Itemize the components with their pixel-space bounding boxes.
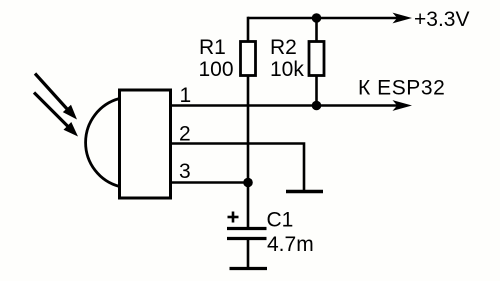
- svg-text:R1: R1: [199, 36, 226, 59]
- wire: +3.3V top rail: [248, 13, 412, 24]
- svg-text:+3.3V: +3.3V: [414, 8, 469, 31]
- resistor R1: [241, 42, 256, 76]
- svg-text:100: 100: [199, 58, 234, 81]
- node: junction dot top rail / R2: [312, 13, 322, 23]
- wire: R1 top lead: [247, 17, 250, 42]
- svg-text:К ESP32: К ESP32: [358, 77, 445, 100]
- IR receiver body U1: [120, 90, 171, 198]
- capacitor C1 bottom plate: [227, 237, 267, 240]
- svg-text:3: 3: [179, 160, 191, 183]
- wire: C1 bottom lead: [247, 239, 250, 268]
- label C1 value 4.7m: [267, 209, 314, 257]
- svg-text:R2: R2: [270, 36, 297, 59]
- label R1 value 100: [199, 36, 234, 81]
- ground bar below C1: [230, 267, 268, 270]
- wire: pin 1 output to ESP32: [171, 100, 412, 111]
- wire: pin 2 to ground: [171, 144, 304, 191]
- wire: R1 bottom lead down to capacitor: [247, 76, 250, 229]
- IR light arrow 1: [35, 74, 77, 120]
- capacitor C1 plus polarity sign: [228, 212, 239, 223]
- wire: R2 top lead: [315, 18, 318, 42]
- ground symbol: [286, 190, 323, 193]
- svg-text:C1: C1: [267, 209, 294, 232]
- node: junction dot R2 / output wire: [312, 101, 322, 111]
- node: junction dot pin3 / R1 lead: [243, 178, 253, 188]
- wire: R2 bottom lead: [315, 76, 318, 106]
- svg-text:2: 2: [179, 123, 191, 146]
- svg-text:10k: 10k: [270, 58, 304, 81]
- IR receiver lens: [86, 99, 120, 187]
- svg-text:4.7m: 4.7m: [267, 233, 314, 256]
- svg-text:1: 1: [180, 84, 192, 107]
- IR light arrow 2: [34, 93, 78, 137]
- resistor R2: [309, 42, 324, 76]
- label R2 value 10k: [270, 36, 304, 81]
- capacitor C1 top plate: [227, 227, 267, 230]
- wire: pin 3: [171, 181, 248, 184]
